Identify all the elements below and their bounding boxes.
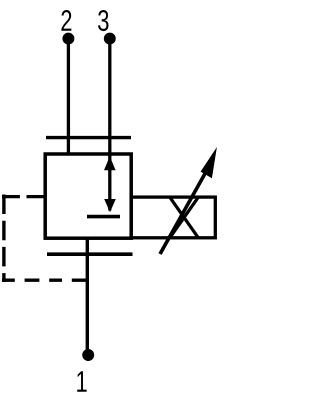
adjustability arrowhead	[201, 147, 217, 178]
bottom body bar	[47, 252, 133, 256]
solenoid X stroke 1	[170, 197, 199, 238]
up arrowhead	[104, 156, 116, 170]
port label 2	[61, 10, 71, 31]
port label 3	[98, 10, 108, 31]
top body bar	[46, 136, 131, 139]
valve envelope box	[45, 154, 131, 238]
wire port 2	[67, 39, 70, 156]
wire port 1 / drain	[86, 237, 89, 352]
valve seat bar	[87, 215, 120, 219]
pilot dashed line left segment	[2, 195, 5, 283]
node dot port 3	[104, 33, 116, 45]
node dot port 1	[82, 349, 94, 361]
pilot dashed line bottom segment	[2, 279, 87, 282]
solenoid X stroke 2	[170, 197, 199, 238]
port label 1	[77, 371, 86, 391]
wire port 3 / arrow shaft	[108, 39, 111, 211]
down arrowhead	[104, 199, 116, 212]
pilot dashed line top segment	[2, 195, 45, 198]
proportional solenoid box	[131, 197, 215, 238]
node dot port 2	[62, 33, 74, 45]
adjustability arrow shaft	[160, 170, 207, 254]
